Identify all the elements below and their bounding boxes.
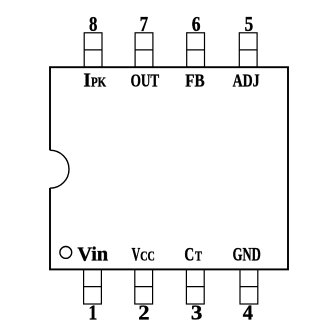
pin lead 5 bbox=[239, 33, 257, 67]
svg-text:Vin: Vin bbox=[77, 244, 108, 265]
notch bbox=[50, 150, 69, 188]
svg-text:FB: FB bbox=[185, 71, 204, 91]
svg-text:GND: GND bbox=[233, 245, 261, 265]
pin lead 6 bbox=[187, 33, 205, 67]
svg-text:8: 8 bbox=[89, 12, 98, 36]
pin lead 1 bbox=[84, 269, 102, 304]
pin lead 2 bbox=[135, 269, 153, 304]
svg-text:5: 5 bbox=[245, 12, 254, 36]
pin lead 7 bbox=[135, 33, 153, 67]
svg-text:CC: CC bbox=[140, 248, 155, 263]
svg-text:3: 3 bbox=[191, 301, 203, 325]
pin 1 indicator circle bbox=[60, 247, 72, 259]
svg-text:ADJ: ADJ bbox=[233, 71, 260, 91]
pin lead 3 bbox=[186, 269, 204, 304]
svg-text:6: 6 bbox=[192, 12, 201, 36]
notch erase bbox=[48, 150, 53, 188]
pin lead 4 bbox=[240, 269, 258, 304]
IC body U1 bbox=[50, 67, 288, 269]
svg-text:7: 7 bbox=[140, 12, 149, 36]
svg-text:V: V bbox=[132, 244, 141, 265]
pin lead 8 bbox=[84, 33, 102, 67]
svg-text:2: 2 bbox=[138, 301, 149, 325]
svg-text:OUT: OUT bbox=[131, 71, 160, 91]
svg-text:C: C bbox=[184, 244, 194, 265]
svg-text:T: T bbox=[195, 248, 202, 263]
svg-text:I: I bbox=[83, 70, 91, 92]
svg-text:PK: PK bbox=[91, 75, 107, 90]
svg-text:4: 4 bbox=[243, 301, 253, 325]
svg-text:1: 1 bbox=[88, 301, 97, 325]
